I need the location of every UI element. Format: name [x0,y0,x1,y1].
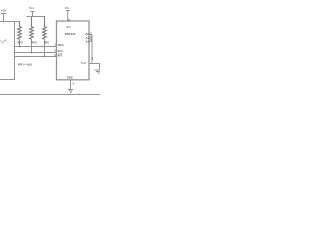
power Vcc [31,12,35,17]
junction SDA/RPU1 [19,46,21,48]
ground GND [68,90,73,93]
wire Vcc rail [27,16,46,18]
svg-text:SDA: SDA [58,43,65,47]
svg-text:+5V: +5V [1,9,6,13]
wire GND [70,80,72,90]
ground right [95,70,105,73]
wire SDA [15,46,57,48]
wire address bus [91,35,93,64]
svg-text:GND: GND [67,76,73,80]
svg-text:3: 3 [92,57,94,60]
wire A1 stub [89,37,92,39]
wire TOUT [89,64,100,71]
CPU box [0,22,15,80]
wire RPU3 to INT [44,39,46,56]
resistor RPU1 [18,22,22,40]
wire +5V rail [0,21,20,23]
svg-text:TOUT: TOUT [81,62,87,65]
wire SCL [15,52,57,54]
wire INT [15,56,57,58]
power Vcc IC [66,11,70,22]
svg-text:A2: A2 [85,39,89,43]
svg-text:RPU: RPU [17,41,23,45]
border rule [0,94,100,96]
svg-text:DS1631: DS1631 [65,32,76,36]
wire RPU1 to SDA [19,39,21,46]
svg-text:VCC: VCC [67,25,72,29]
IC U1 box [57,21,90,80]
svg-text:RPU: RPU [44,41,50,45]
junction SCL/RPU2 [31,52,33,54]
svg-text:RPU: RPU [31,41,37,45]
wire A2 stub [89,41,92,43]
svg-text:VCC: VCC [29,6,35,10]
wire RPU2 to SCL [31,39,33,52]
svg-text:RPU = 5kΩ: RPU = 5kΩ [18,62,33,66]
resistor RPU3 [43,17,47,40]
svg-text:4: 4 [72,81,74,85]
resistor RPU2 [30,17,34,40]
label CPU partial [1,39,6,43]
power +5V [1,14,7,22]
svg-text:INT: INT [58,53,63,57]
svg-text:VCC: VCC [65,6,71,10]
wire A0 stub [89,34,92,36]
junction INT/RPU3 [44,56,46,58]
